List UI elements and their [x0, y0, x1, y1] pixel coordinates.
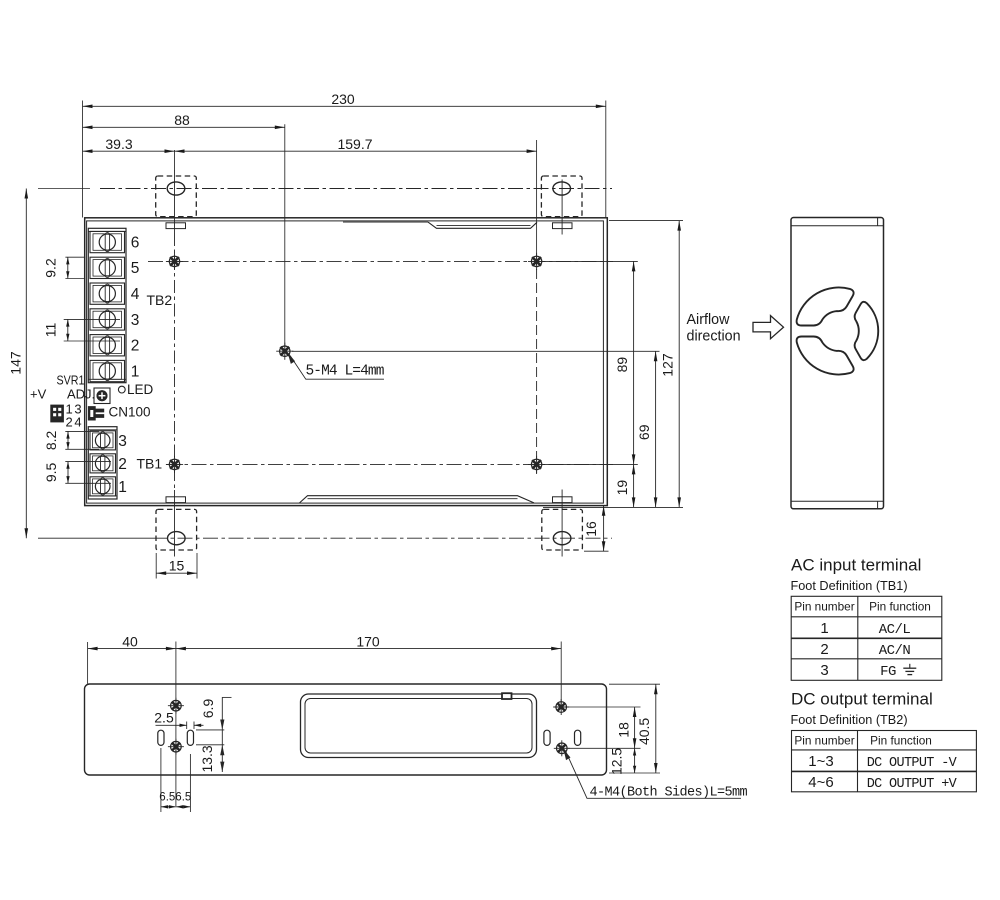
mounting hole top-left 5-M4	[166, 253, 183, 270]
dimension 9.5	[67, 462, 69, 484]
vertical centerline left bracket/hole column	[174, 171, 176, 234]
dimension 170	[176, 648, 561, 650]
top view: case inner outline (sheet thickness)	[87, 221, 604, 503]
dimension 127	[678, 221, 680, 508]
bottom view extension lines	[88, 642, 660, 813]
extension lines	[38, 101, 683, 579]
dimension 89	[633, 261, 635, 464]
dimension 159.7	[175, 150, 537, 152]
svg-text:9.2: 9.2	[43, 258, 59, 278]
dimension 18	[634, 707, 636, 748]
mounting hole bottom-left 5-M4	[166, 456, 183, 473]
oval slot left inner	[187, 730, 193, 745]
svg-text:ADJ.: ADJ.	[67, 387, 95, 402]
svg-text:2.5: 2.5	[154, 710, 174, 726]
svg-text:5: 5	[131, 260, 140, 277]
leader 5-M4 L=4mm	[290, 356, 384, 380]
svg-text:4~6: 4~6	[808, 774, 833, 791]
svg-text:SVR1: SVR1	[57, 373, 85, 388]
svg-text:Foot Definition (TB1): Foot Definition (TB1)	[791, 579, 908, 593]
svg-text:Foot Definition (TB2): Foot Definition (TB2)	[791, 713, 908, 727]
dimension 19	[633, 464, 635, 507]
svg-text:88: 88	[174, 112, 190, 128]
top edge screw tabs	[166, 223, 186, 229]
svg-text:Pin function: Pin function	[869, 600, 931, 614]
dimension 9.2	[67, 257, 69, 278]
TB2 terminal 5	[90, 257, 125, 278]
connector CN100	[88, 407, 104, 421]
svg-text:TB2: TB2	[147, 292, 173, 308]
centerline through top bracket holes	[100, 188, 612, 190]
svg-text:230: 230	[331, 91, 355, 107]
ground symbol	[903, 664, 916, 675]
svg-text:15: 15	[169, 558, 185, 574]
svg-text:3: 3	[820, 662, 828, 679]
dimension 6.5 right	[176, 806, 190, 808]
bottom view screw hole lower-right 4-M4	[554, 740, 570, 756]
svg-text:8.2: 8.2	[43, 430, 59, 450]
mounting hole top-right 5-M4	[528, 253, 545, 270]
vertical centerline top right bracket	[561, 180, 563, 235]
svg-text:1: 1	[118, 479, 127, 496]
top vent slot	[343, 222, 537, 228]
TB2 terminal 1	[90, 360, 125, 381]
svg-text:170: 170	[356, 633, 380, 649]
fan opening top-left blade	[797, 287, 854, 325]
svg-text:4: 4	[131, 286, 140, 303]
svg-text:69: 69	[636, 424, 652, 440]
svg-text:6.5: 6.5	[175, 791, 191, 803]
svg-text:24: 24	[66, 415, 84, 430]
svg-text:DC OUTPUT +V: DC OUTPUT +V	[867, 777, 958, 792]
TB2 terminal 2	[90, 335, 125, 356]
TB2 terminal 4	[90, 283, 125, 304]
bottom right mounting bracket	[542, 509, 583, 550]
vertical centerline bottom right bracket	[561, 490, 563, 557]
svg-text:19: 19	[614, 480, 630, 496]
svg-text:DC output terminal: DC output terminal	[791, 690, 933, 709]
svg-text:LED: LED	[127, 382, 154, 397]
TB1 terminal 1	[90, 477, 116, 496]
dimension 8.2	[67, 431, 69, 449]
vertical dashed line right mounting hole column	[536, 255, 538, 474]
svg-text:147: 147	[8, 351, 24, 375]
vent window tab	[502, 693, 512, 699]
dimension 40.5	[655, 684, 657, 773]
terminal block TB1 frame	[88, 427, 117, 499]
dimension 230	[83, 105, 606, 107]
svg-text:1: 1	[820, 620, 828, 637]
bottom view screw hole lower-left 4-M4	[168, 739, 184, 755]
terminal block TB2 frame	[88, 228, 126, 382]
top left mounting bracket	[156, 176, 197, 217]
svg-text:16: 16	[583, 521, 599, 537]
svg-text:13.3: 13.3	[199, 745, 215, 772]
svg-text:+V: +V	[30, 387, 47, 402]
bottom vent slot	[300, 496, 535, 503]
svg-text:9.5: 9.5	[43, 462, 59, 482]
svg-text:AC input terminal: AC input terminal	[791, 556, 921, 575]
dimension 16	[603, 506, 605, 551]
svg-text:127: 127	[660, 353, 676, 377]
svg-text:40: 40	[122, 633, 138, 649]
airflow direction arrow	[753, 316, 784, 339]
bottom view screw hole top-right 4-M4	[553, 699, 569, 715]
fan opening bottom-left blade	[797, 337, 854, 375]
dimension 6.5 left	[161, 806, 176, 808]
oval slot right outer	[575, 730, 581, 745]
dimension 39.3	[83, 150, 175, 152]
svg-text:Airflow: Airflow	[687, 312, 731, 328]
dimension 40	[88, 648, 176, 650]
fan side view case	[791, 218, 884, 509]
svg-text:3: 3	[131, 312, 140, 329]
table TB2	[792, 731, 977, 792]
DIP switch	[51, 405, 64, 422]
table TB1	[791, 596, 942, 680]
svg-text:159.7: 159.7	[337, 136, 372, 152]
dimension 2.5 arrows	[156, 724, 187, 726]
oval slot left outer	[158, 730, 164, 745]
svg-text:12.5: 12.5	[608, 748, 624, 775]
svg-text:39.3: 39.3	[105, 136, 132, 152]
dimension 88	[83, 126, 285, 128]
TB1 terminal 2	[90, 454, 116, 473]
svg-text:AC/L: AC/L	[879, 622, 911, 638]
bottom view vent window inner	[305, 699, 532, 754]
centerline through upper mounting holes	[148, 260, 613, 262]
centerline through lower mounting holes	[166, 463, 613, 465]
svg-text:1~3: 1~3	[808, 753, 833, 770]
potentiometer SVR1	[94, 388, 110, 404]
bottom view screw hole top-left 4-M4	[168, 698, 184, 714]
svg-text:18: 18	[615, 722, 631, 738]
svg-text:AC/N: AC/N	[879, 643, 911, 659]
svg-text:Pin number: Pin number	[794, 733, 854, 747]
svg-text:direction: direction	[687, 328, 741, 344]
svg-text:2: 2	[820, 641, 828, 658]
bottom view body	[85, 684, 607, 775]
dimension 69	[655, 351, 657, 507]
TB2 terminal 3	[90, 309, 125, 330]
dimension 147	[25, 189, 27, 539]
svg-text:5-M4 L=4mm: 5-M4 L=4mm	[306, 364, 384, 380]
svg-text:89: 89	[614, 357, 630, 373]
top right mounting bracket	[541, 176, 582, 217]
svg-text:4-M4(Both Sides)L=5mm: 4-M4(Both Sides)L=5mm	[590, 786, 748, 801]
svg-text:40.5: 40.5	[636, 718, 652, 745]
svg-text:TB1: TB1	[137, 455, 163, 471]
LED indicator	[118, 386, 125, 393]
leader 4-M4 (Both Sides) L=5mm	[566, 752, 741, 798]
svg-text:2: 2	[131, 338, 140, 355]
svg-text:1: 1	[131, 363, 140, 380]
dimension 15	[156, 572, 197, 574]
bottom left mounting bracket	[156, 509, 197, 550]
svg-text:Pin number: Pin number	[794, 600, 854, 614]
svg-text:6.9: 6.9	[200, 699, 216, 719]
top view: case outer outline	[85, 218, 608, 506]
bottom edge screw tabs	[166, 497, 186, 503]
svg-text:2: 2	[118, 456, 127, 473]
mounting hole bottom-right 5-M4	[528, 456, 545, 473]
TB1 terminal 3	[90, 431, 116, 450]
oval slot right inner	[544, 730, 550, 745]
dimension 6.9 and 13.3 line	[221, 697, 223, 772]
svg-text:FG: FG	[880, 664, 896, 680]
svg-text:6.5: 6.5	[159, 791, 175, 803]
centerline through bottom bracket holes	[152, 537, 612, 539]
TB2 terminal 6	[90, 231, 125, 252]
svg-text:DC OUTPUT -V: DC OUTPUT -V	[867, 756, 958, 771]
svg-text:Pin function: Pin function	[870, 733, 932, 747]
mounting hole center 5-M4	[276, 343, 293, 360]
dimension 11	[67, 319, 69, 341]
fan opening right blade	[855, 302, 879, 360]
svg-text:CN100: CN100	[109, 405, 151, 420]
bottom view vent window outer	[301, 694, 537, 758]
dimension 12.5	[634, 748, 636, 773]
svg-text:11: 11	[43, 323, 59, 338]
svg-text:6: 6	[131, 235, 140, 252]
svg-text:3: 3	[118, 433, 127, 450]
